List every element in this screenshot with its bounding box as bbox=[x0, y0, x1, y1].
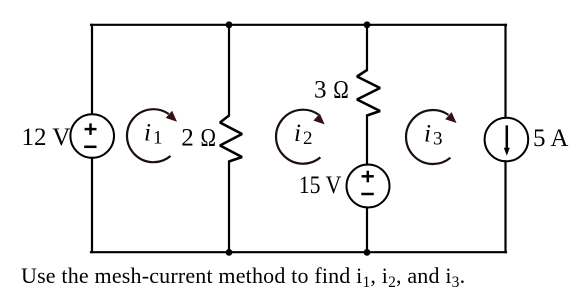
svg-text:2: 2 bbox=[303, 128, 313, 149]
svg-text:1: 1 bbox=[153, 128, 163, 149]
svg-text:i: i bbox=[144, 120, 151, 147]
svg-text:2: 2 bbox=[181, 124, 194, 151]
svg-text:15 V: 15 V bbox=[299, 172, 342, 199]
svg-text:5 A: 5 A bbox=[533, 125, 568, 152]
svg-text:12 V: 12 V bbox=[22, 124, 71, 151]
svg-text:3: 3 bbox=[433, 129, 443, 150]
svg-text:Ω: Ω bbox=[201, 124, 217, 151]
svg-text:Ω: Ω bbox=[333, 76, 349, 103]
svg-text:i: i bbox=[294, 120, 301, 147]
svg-text:3: 3 bbox=[314, 76, 327, 103]
svg-text:Use the mesh-current method to: Use the mesh-current method to find i1, … bbox=[21, 263, 465, 291]
svg-text:i: i bbox=[424, 120, 431, 147]
